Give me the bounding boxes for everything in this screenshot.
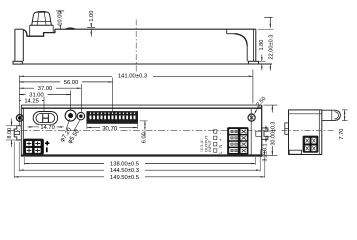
side view: cable strain-relief dome [32, 12, 52, 25]
dim 138.00±0.5 [23, 157, 25, 165]
side view: left bracket fillet / clamp profile [23, 29, 55, 36]
shared left extension line [18, 75, 20, 126]
svg-text:14.25: 14.25 [24, 99, 39, 105]
svg-text:10.00: 10.00 [57, 11, 63, 26]
side view: small bump on top surface [65, 28, 76, 29]
end view: centerline [282, 129, 335, 131]
svg-text:149.50±0.5: 149.50±0.5 [110, 175, 139, 181]
svg-text:37.00: 37.00 [38, 86, 53, 92]
svg-text:14.70: 14.70 [40, 125, 55, 131]
dim 7.70 (dome) [342, 109, 348, 111]
plan view: right edge [261, 105, 263, 157]
end view: terminal block [303, 136, 318, 152]
side view: enclosure body outline [55, 28, 256, 30]
end view: mounting tab edge-on [285, 123, 289, 134]
svg-text:138.00±0.5: 138.00±0.5 [110, 162, 139, 168]
leader φ7.20 [66, 119, 70, 130]
dim 37.00 [19, 87, 81, 89]
clamp H detail [42, 114, 44, 122]
dim 3.2±0.1 (slot) [268, 130, 272, 132]
dim 1.00 (bump height) [87, 26, 95, 28]
plan view: left mounting tab with slot [14, 126, 21, 140]
dim 22.00±0.3 (overall height) [258, 28, 274, 30]
svg-text:30.00±0.3: 30.00±0.3 [270, 122, 276, 146]
output polarity labels [45, 142, 49, 144]
plan view: hole φ5.50 [77, 112, 84, 119]
side view: raised boss under cable dome [30, 24, 54, 26]
leader φ5.50 [74, 119, 81, 130]
svg-text:1.00: 1.00 [89, 11, 95, 22]
svg-text:1.80: 1.80 [259, 40, 265, 51]
svg-text:144.50±0.3: 144.50±0.3 [110, 168, 139, 174]
terminal pin labels [214, 130, 217, 133]
svg-text:141.00±0.3: 141.00±0.3 [118, 74, 148, 80]
dim 8.00 (tab height) [6, 125, 17, 127]
plan view: horizontal centerline [8, 130, 276, 132]
plan view: cable clamp obround [33, 112, 57, 125]
svg-text:6.00: 6.00 [141, 132, 147, 143]
dim 1.80 (foot thickness) [259, 60, 266, 62]
leader 2.50 [255, 107, 259, 114]
dim 30.70 (connector width) [86, 124, 88, 129]
plan view: left edge [20, 105, 22, 157]
plan view: hole φ7.20 [65, 110, 76, 121]
svg-text:56.00: 56.00 [64, 80, 79, 86]
plan view: end-cap boundary line [250, 108, 252, 155]
dim 144.50±0.3 [18, 142, 20, 171]
plan view: pin header connector [87, 112, 138, 124]
dim 30.00±0.3 (body width) [263, 104, 277, 106]
end view: body outline [289, 110, 322, 155]
plan view: input/output terminal block (2x4) [228, 128, 249, 155]
dim 10.00 (dome height) [56, 10, 64, 12]
svg-text:30.70: 30.70 [102, 126, 118, 132]
dim 56.00 [19, 81, 112, 83]
side view: right mounting bracket [255, 29, 257, 61]
svg-text:22.00±0.3: 22.00±0.3 [268, 35, 274, 60]
plan view: bottom edge [21, 154, 261, 156]
plan view: right corner screw [248, 114, 255, 121]
dim 141.00±0.3 (overall length, side view) [252, 70, 254, 104]
dim 31.00 [19, 94, 70, 96]
end view: output block edge-on [289, 150, 301, 154]
svg-text:8.00: 8.00 [7, 128, 13, 139]
svg-text:7.70: 7.70 [339, 129, 345, 140]
end view: cable dome profile [322, 110, 341, 120]
centerline of side view [135, 20, 137, 72]
side view: left mounting bracket [14, 29, 16, 61]
plan view: right mounting tab with slot [262, 128, 268, 139]
dim 14.70 (obround width) [28, 126, 34, 128]
dim 6.00 (pins to centerline) [140, 120, 148, 122]
plan view: clamp end screw [16, 115, 23, 122]
svg-text:INPUT: INPUT [207, 139, 212, 152]
plan view: output terminal block (2x2) [24, 139, 44, 154]
dim 149.50±0.5 [13, 142, 15, 179]
svg-text:□0.5-4□: □0.5-4□ [200, 138, 204, 152]
svg-text:N: N [218, 145, 223, 148]
plan view: body outline top double edge [21, 104, 261, 106]
svg-text:3.2±0.1: 3.2±0.1 [262, 144, 268, 162]
dim 14.25 [19, 99, 44, 101]
